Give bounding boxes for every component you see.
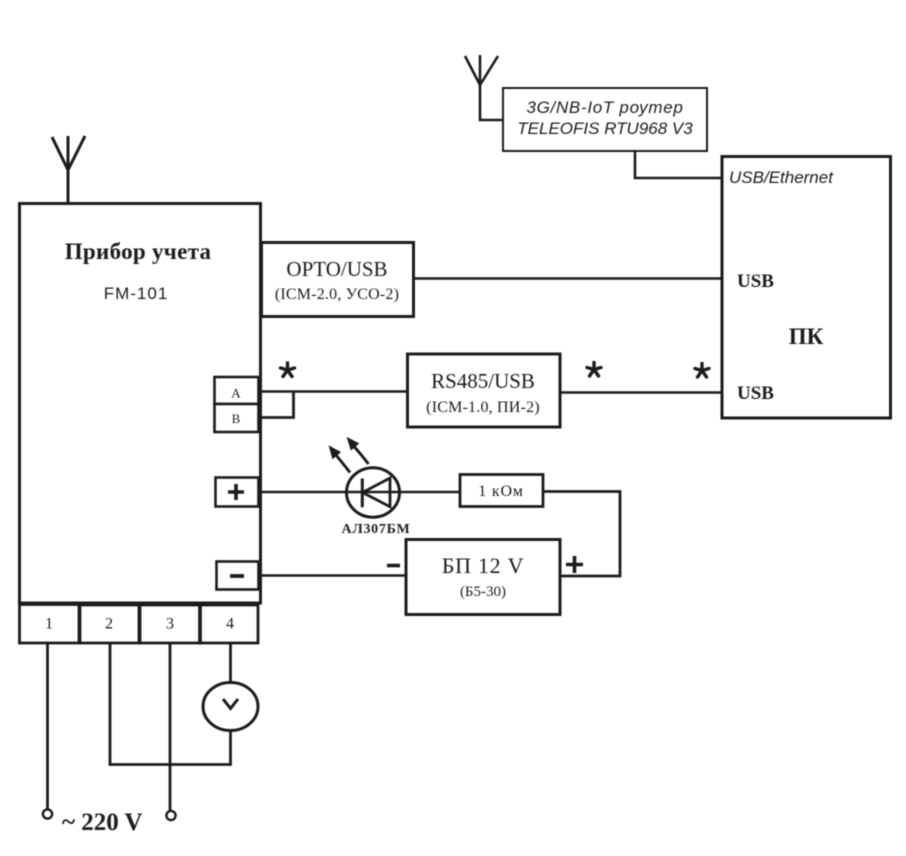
svg-text:АЛ307БМ: АЛ307БМ bbox=[342, 522, 411, 537]
svg-text:3G/NB-IoT роутер: 3G/NB-IoT роутер bbox=[526, 98, 683, 117]
svg-text:1: 1 bbox=[45, 616, 53, 633]
wire terminal 4 to voltmeter bbox=[229, 643, 232, 683]
meter unit box FM-101 bbox=[20, 204, 261, 604]
wire RS485/USB to PC USB bbox=[560, 391, 722, 394]
svg-text:USB/Ethernet: USB/Ethernet bbox=[729, 168, 834, 187]
svg-text:FM-101: FM-101 bbox=[104, 284, 169, 303]
label plus (PSU output) bbox=[566, 556, 583, 573]
voltmeter PV1 bbox=[203, 683, 258, 731]
svg-text:2: 2 bbox=[105, 616, 113, 633]
svg-text:(ICM-2.0, УСО-2): (ICM-2.0, УСО-2) bbox=[275, 286, 399, 303]
asterisk marker 2 bbox=[587, 363, 601, 377]
3G/NB-IoT router box TELEOFIS RTU968 V3 bbox=[503, 88, 707, 151]
svg-text:ПК: ПК bbox=[789, 324, 824, 349]
antenna ANT2 (router) bbox=[465, 55, 503, 120]
wire terminal B to node on A wire bbox=[259, 392, 294, 418]
svg-text:B: B bbox=[232, 411, 241, 426]
antenna ANT1 (meter) bbox=[52, 136, 85, 204]
svg-text:3: 3 bbox=[166, 616, 174, 633]
wire resistor to power supply + bbox=[543, 492, 620, 577]
wire terminal A to RS485/USB bbox=[259, 390, 408, 393]
PC box ПК bbox=[722, 157, 891, 419]
mains terminal circle 2 bbox=[166, 811, 175, 820]
wire terminal 3 to mains bbox=[169, 643, 172, 810]
terminal strip cell 1 bbox=[20, 605, 80, 644]
asterisk marker 3 bbox=[695, 364, 709, 378]
wire terminal 2 down bbox=[109, 643, 112, 766]
svg-text:1 кОм: 1 кОм bbox=[478, 483, 523, 500]
OPTO/USB converter box bbox=[262, 243, 414, 317]
asterisk marker 1 bbox=[281, 363, 295, 377]
terminal strip cell 4 bbox=[201, 605, 259, 643]
svg-text:Прибор учета: Прибор учета bbox=[65, 239, 212, 264]
svg-text:БП 12 V: БП 12 V bbox=[442, 553, 524, 578]
wire terminal - to power supply bbox=[259, 574, 406, 577]
svg-text:(Б5-30): (Б5-30) bbox=[460, 584, 506, 600]
svg-text:~ 220 V: ~ 220 V bbox=[62, 809, 143, 836]
svg-text:USB: USB bbox=[737, 383, 774, 404]
wire OPTO/USB to PC USB bbox=[414, 277, 723, 280]
RS485/USB converter box bbox=[408, 354, 561, 427]
svg-text:TELEOFIS RTU968 V3: TELEOFIS RTU968 V3 bbox=[517, 119, 693, 138]
terminal + bbox=[216, 478, 259, 507]
power supply БП 12 V bbox=[406, 540, 560, 615]
terminal - bbox=[217, 562, 259, 590]
wire voltmeter to node bbox=[229, 731, 232, 766]
wire node 2 to voltmeter bottom bbox=[109, 763, 232, 766]
svg-text:(ICM-1.0, ПИ-2): (ICM-1.0, ПИ-2) bbox=[426, 399, 540, 416]
terminal strip cell 3 bbox=[140, 605, 200, 643]
wire terminal + to LED and resistor bbox=[259, 491, 459, 494]
terminal A bbox=[215, 377, 259, 404]
wire terminal 1 to mains bbox=[46, 643, 49, 809]
svg-text:4: 4 bbox=[226, 616, 234, 633]
terminal B bbox=[215, 404, 259, 432]
LED light arrow 1 bbox=[330, 447, 351, 473]
svg-text:RS485/USB: RS485/USB bbox=[431, 369, 535, 393]
svg-text:A: A bbox=[231, 386, 241, 401]
terminal strip cell 2 bbox=[80, 605, 139, 643]
label minus (PSU input) bbox=[387, 564, 400, 568]
resistor R1 1 кОм bbox=[460, 475, 543, 507]
svg-text:OPTO/USB: OPTO/USB bbox=[286, 257, 387, 281]
mains terminal circle 1 bbox=[43, 809, 52, 818]
svg-text:USB: USB bbox=[737, 271, 774, 292]
LED light arrow 2 bbox=[348, 438, 369, 464]
LED VD1 bbox=[347, 468, 400, 517]
wire router to PC (USB/Ethernet) bbox=[635, 151, 722, 178]
